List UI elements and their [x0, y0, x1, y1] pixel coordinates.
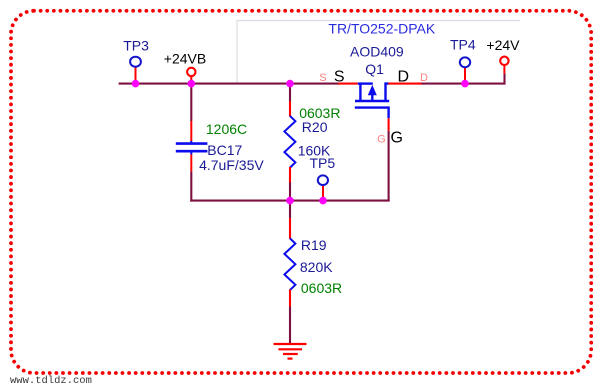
source vertical	[359, 84, 361, 101]
test point TP5	[310, 155, 336, 200]
svg-text:0603R: 0603R	[301, 280, 342, 296]
svg-text:TP4: TP4	[450, 37, 476, 53]
junction dot (+24VB / cap branch)	[188, 80, 196, 88]
resistor R20	[284, 101, 340, 183]
test point TP4	[450, 37, 476, 84]
pin S red stub	[338, 83, 358, 85]
wire: capacitor branch vertical lower segment	[190, 171, 192, 201]
svg-text:R20: R20	[302, 119, 328, 135]
junction dot (R20 / top wire)	[286, 80, 294, 88]
wire: R20 lower stub	[289, 182, 291, 201]
svg-text:G: G	[391, 130, 403, 147]
junction dot (TP5 / bottom wire)	[319, 197, 327, 205]
svg-text:D: D	[420, 72, 428, 84]
pin G red stub	[388, 118, 390, 131]
wire: R19 upper stub	[289, 201, 291, 218]
svg-text:TP5: TP5	[310, 155, 336, 171]
svg-text:G: G	[377, 133, 386, 145]
transistor Q1 AOD409 P-MOSFET	[319, 21, 436, 147]
svg-text:TP3: TP3	[123, 37, 149, 53]
svg-text:R19: R19	[301, 237, 327, 253]
gate plate	[355, 108, 389, 119]
source top bar	[358, 82, 373, 84]
body arrow head	[368, 85, 377, 95]
power port +24V	[486, 37, 520, 74]
ground	[274, 344, 307, 359]
junction dot (TP4 / top wire)	[461, 80, 469, 88]
power port +24VB	[164, 51, 206, 84]
resistor R19	[284, 218, 342, 307]
svg-text:S: S	[334, 68, 345, 85]
svg-text:1206C: 1206C	[206, 121, 247, 137]
wire: gate branch vertical	[388, 131, 390, 201]
svg-text:+24V: +24V	[486, 37, 520, 53]
svg-text:Q1: Q1	[365, 61, 384, 77]
drain bar and vertical	[386, 84, 389, 101]
channel bar	[355, 100, 389, 103]
capacitor BC17	[176, 121, 265, 173]
wire: top horizontal +24VB net	[119, 83, 339, 85]
svg-text:S: S	[319, 72, 326, 84]
wire: R19 lower stub to ground	[289, 307, 291, 345]
wire: top horizontal right of Q1	[421, 83, 505, 85]
junction dot (TP3 / top wire)	[132, 80, 140, 88]
svg-text:BC17: BC17	[207, 142, 242, 158]
svg-text:www.tdldz.com: www.tdldz.com	[10, 375, 92, 385]
test point TP3	[123, 37, 149, 83]
svg-text:+24VB: +24VB	[164, 51, 206, 67]
svg-text:D: D	[398, 68, 410, 85]
wire: bottom horizontal net	[190, 200, 389, 202]
wire: R20 upper stub	[289, 84, 291, 101]
wire: capacitor branch vertical upper segment	[190, 84, 192, 121]
wire: +24V drop vertical	[503, 74, 505, 85]
svg-text:TR/TO252-DPAK: TR/TO252-DPAK	[328, 21, 436, 37]
svg-text:4.7uF/35V: 4.7uF/35V	[199, 157, 264, 173]
body arrow stem	[371, 94, 373, 101]
junction dot (R20 / bottom wire)	[286, 197, 294, 205]
pin D red stub	[388, 83, 422, 85]
svg-text:820K: 820K	[300, 259, 333, 275]
svg-text:AOD409: AOD409	[350, 43, 404, 59]
